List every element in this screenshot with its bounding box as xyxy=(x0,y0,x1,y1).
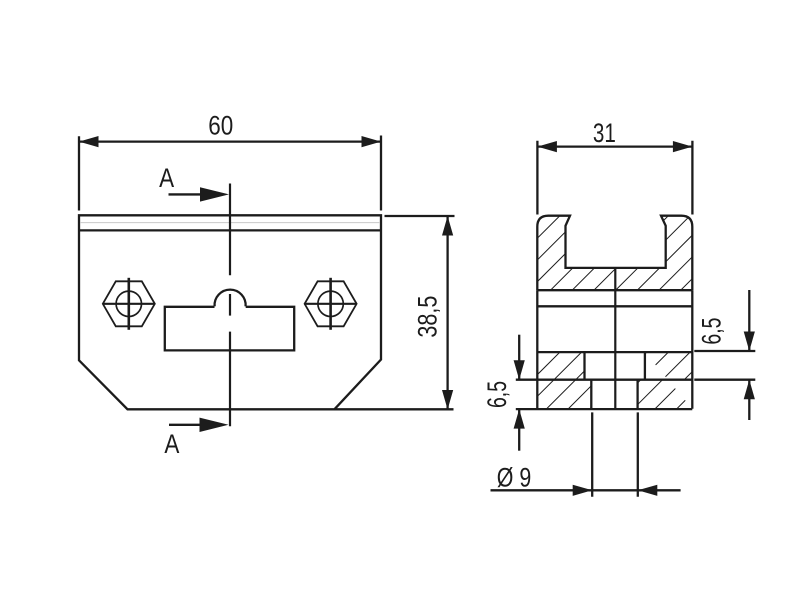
svg-text:31: 31 xyxy=(593,118,616,148)
svg-text:Ø 9: Ø 9 xyxy=(497,462,532,492)
svg-text:6,5: 6,5 xyxy=(696,318,726,345)
svg-text:60: 60 xyxy=(208,110,233,140)
svg-text:A: A xyxy=(159,163,174,193)
svg-text:38,5: 38,5 xyxy=(413,296,443,338)
svg-text:A: A xyxy=(164,429,179,459)
svg-text:6,5: 6,5 xyxy=(482,381,512,408)
